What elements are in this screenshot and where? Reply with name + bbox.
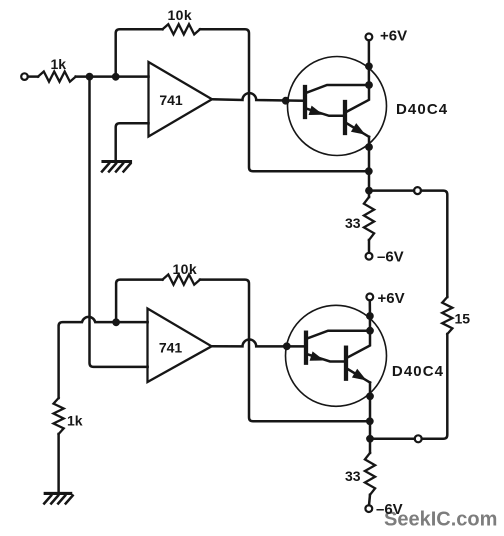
wire R1 to op-amp U1 inverting input xyxy=(76,75,149,78)
junction dot can bottom crossing xyxy=(365,143,373,151)
-6V terminal (top) xyxy=(366,253,373,260)
junction dot feedback tap on emitter rail (bottom) xyxy=(366,417,374,425)
input terminal xyxy=(21,73,28,80)
junction dot base Q3 xyxy=(283,342,291,350)
can circle D40C4 (top) xyxy=(288,57,387,156)
junction dot can top crossing (bottom) xyxy=(366,312,374,320)
+6V terminal (bottom) xyxy=(366,294,373,301)
transistor pair Q1 Q2 D40C4 xyxy=(305,85,369,137)
wire output terminal to right rail xyxy=(421,191,447,297)
resistor R6 10k xyxy=(163,275,201,285)
svg-text:1k: 1k xyxy=(51,56,67,72)
transistor Q1 base bar xyxy=(303,87,307,117)
resistor R2 10k xyxy=(163,24,201,34)
junction dot feedback tap on emitter rail xyxy=(365,167,373,175)
junction dot output branch (top) xyxy=(365,187,373,195)
wire right rail down to bottom output xyxy=(422,334,448,439)
ground G1 xyxy=(102,162,131,172)
transistor Q2 emitter lead xyxy=(347,124,369,137)
ground G2 xyxy=(44,493,72,503)
transistor Q1 collector lead xyxy=(307,85,369,93)
op-amp U2 741 xyxy=(148,309,212,383)
op-amp U1 741 xyxy=(149,62,213,137)
junction dot can bottom crossing (bottom) xyxy=(366,392,374,400)
svg-text:+6V: +6V xyxy=(378,290,405,307)
svg-text:741: 741 xyxy=(159,92,183,108)
resistor R3 33 xyxy=(364,197,374,240)
resistor R7 33 xyxy=(365,453,375,495)
junction dot feedback tap U1 xyxy=(112,73,120,81)
svg-text:D40C4: D40C4 xyxy=(396,101,448,118)
wire output branch to terminal (bottom) xyxy=(370,438,415,441)
wire output branch to terminal (top) xyxy=(369,189,414,192)
wire feedback loop U1 (tap up, over, down to emitter node) xyxy=(116,29,365,171)
svg-text:–6V: –6V xyxy=(376,501,403,518)
output terminal (bottom) xyxy=(415,435,422,442)
wire +6V down to collector node (bottom) xyxy=(369,300,372,330)
svg-text:15: 15 xyxy=(455,311,471,327)
resistor R5 15 xyxy=(442,297,452,334)
transistor Q2 base bar xyxy=(343,102,347,133)
transistor Q2 collector lead xyxy=(347,85,369,112)
output terminal (top) xyxy=(414,187,421,194)
junction dot can top crossing xyxy=(365,62,373,70)
wire +6V down to collector node xyxy=(368,40,371,85)
svg-text:D40C4: D40C4 xyxy=(392,363,444,380)
svg-text:10k: 10k xyxy=(168,7,193,23)
resistor R4 1k xyxy=(54,398,64,434)
transistor pair Q3 Q4 D40C4 xyxy=(306,331,370,383)
svg-text:10k: 10k xyxy=(173,261,198,277)
junction dot feedback tap U2 xyxy=(112,318,120,326)
wire R3 to -6V terminal xyxy=(368,240,371,253)
can circle D40C4 (bottom) xyxy=(286,305,387,406)
junction dot collectors (bottom) xyxy=(366,327,374,335)
wire R7 to -6V terminal (bottom) xyxy=(369,495,370,505)
svg-text:33: 33 xyxy=(345,468,361,484)
wire U1 output to Q1 base, hop over feedback xyxy=(212,93,303,101)
node A junction dot (input node) xyxy=(86,73,94,81)
wire U1 non-inverting input to ground xyxy=(116,123,149,160)
wire emitter rail down to R3 xyxy=(368,137,371,197)
svg-text:1k: 1k xyxy=(67,413,83,429)
junction dot collectors xyxy=(365,81,373,89)
wire input terminal to R1 xyxy=(28,75,38,78)
resistor R1 1k xyxy=(38,72,76,82)
svg-text:33: 33 xyxy=(345,215,361,231)
wire emitter rail down to R7 xyxy=(369,383,372,453)
svg-text:–6V: –6V xyxy=(377,249,404,266)
svg-text:741: 741 xyxy=(159,340,183,356)
-6V terminal (bottom) xyxy=(365,505,372,512)
transistor Q1 emitter lead xyxy=(307,109,343,116)
wire feedback loop U2 (tap up, over, down to emitter node) xyxy=(116,280,365,422)
junction dot base Q1 xyxy=(282,97,290,105)
junction dot output branch (bottom) xyxy=(366,435,374,443)
wire U2 inverting input from R4, hop over node A wire xyxy=(59,317,148,398)
wire U2 output to Q3 base, hop over feedback xyxy=(212,340,304,347)
transistor Q1 emitter arrow xyxy=(310,107,321,114)
svg-text:+6V: +6V xyxy=(380,28,407,45)
wire node A down to U2 non-inverting input xyxy=(90,77,148,367)
wire R4 to ground xyxy=(57,434,60,492)
+6V terminal (top) xyxy=(366,34,373,41)
transistor Q2 emitter arrow xyxy=(352,125,363,134)
